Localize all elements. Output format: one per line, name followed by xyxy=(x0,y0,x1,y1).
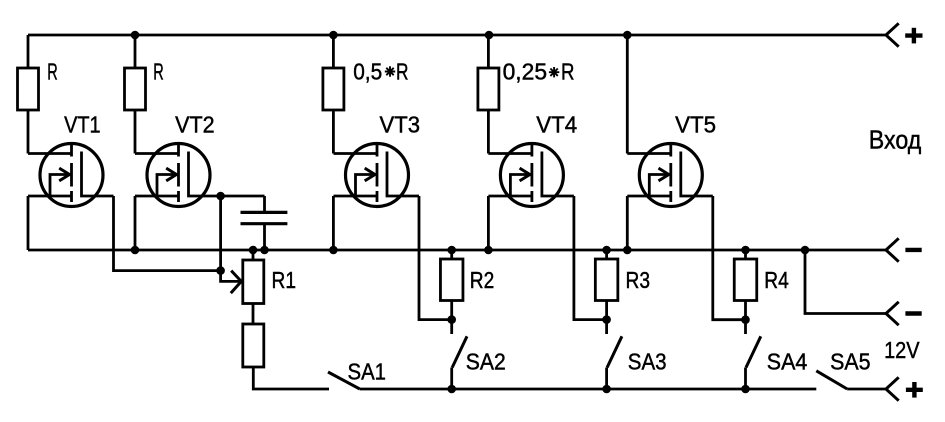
svg-text:SA1: SA1 xyxy=(348,359,387,385)
svg-text:0,5: 0,5 xyxy=(353,59,382,85)
svg-text:R: R xyxy=(153,59,164,85)
svg-text:0,25: 0,25 xyxy=(503,59,547,85)
svg-text:VT3: VT3 xyxy=(380,112,421,138)
svg-text:VT5: VT5 xyxy=(675,112,716,138)
svg-text:SA3: SA3 xyxy=(628,349,667,375)
svg-text:R: R xyxy=(47,59,58,85)
svg-text:VT2: VT2 xyxy=(175,111,215,137)
svg-text:R4: R4 xyxy=(764,267,789,293)
svg-text:VT1: VT1 xyxy=(64,112,101,138)
svg-text:R3: R3 xyxy=(626,267,651,293)
svg-text:R1: R1 xyxy=(272,267,297,293)
svg-text:Вход: Вход xyxy=(869,125,922,155)
svg-text:R: R xyxy=(396,59,409,85)
svg-text:SA4: SA4 xyxy=(767,349,808,375)
svg-text:SA2: SA2 xyxy=(466,348,506,374)
svg-text:12V: 12V xyxy=(884,337,920,363)
svg-text:R2: R2 xyxy=(470,267,495,293)
svg-text:VT4: VT4 xyxy=(536,112,577,138)
svg-text:SA5: SA5 xyxy=(830,349,871,375)
svg-text:R: R xyxy=(561,59,575,85)
